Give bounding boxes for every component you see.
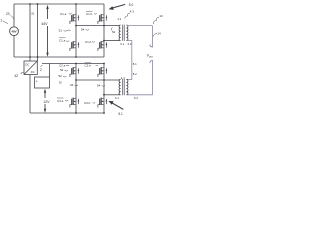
svg-text:8.2: 8.2 (133, 72, 137, 76)
transistor Q7 C3.a (70, 98, 79, 108)
voltage arrow 44V double-headed (47, 9, 49, 19)
callout arrow 5.0 (112, 4, 125, 8)
node dot 37.5,57 (37, 56, 39, 58)
svg-text:DC: DC (31, 70, 35, 74)
wire T2 secondary bottom to output (127, 94, 152, 96)
wire series link T1 sec bottom to T2 sec top (127, 41, 132, 80)
svg-text:52: 52 (112, 30, 116, 34)
converter block U1 DC/DC box (24, 61, 37, 75)
svg-text:8.1: 8.1 (133, 62, 137, 66)
wire T1 secondary top to output (127, 25, 152, 27)
node dot 76,4 (75, 3, 77, 5)
leader after C3.a bar (65, 99, 68, 102)
transistor Q5 C2.a (70, 67, 79, 77)
wire right leg tap to T1 primary bottom (104, 40, 120, 42)
wire lower right leg tap to T2 primary bottom (104, 94, 120, 96)
transistor Q2 C1.b (98, 14, 107, 24)
svg-text:5f: 5f (59, 81, 62, 85)
terminal curl upper (150, 45, 153, 48)
node dot 76,25.6 (75, 25, 77, 27)
svg-text:C1.a: C1.a (59, 39, 66, 43)
transformer T2 (119, 79, 128, 95)
lower bridge right leg (103, 64, 105, 114)
wire left rail lower (13, 36, 15, 58)
transistor Q1 C1.a (70, 14, 79, 24)
wire lower bridge top rail (42, 63, 104, 65)
svg-text:C3.b: C3.b (84, 101, 91, 105)
svg-text:C1.b: C1.b (86, 12, 93, 16)
svg-text:54: 54 (81, 27, 85, 31)
svg-text:C1.b: C1.b (85, 40, 92, 44)
node dot 104,63.5 (103, 63, 105, 65)
svg-text:C2.b: C2.b (85, 64, 92, 68)
leader after C2.b bar (96, 64, 99, 67)
svg-text:51: 51 (59, 28, 63, 32)
top bridge left leg (75, 4, 77, 57)
svg-text:DC: DC (25, 62, 29, 66)
svg-text:44V: 44V (41, 22, 48, 26)
wire bottom input rail (14, 56, 104, 58)
wire vertical x37.5 to DC/DC input (37, 4, 39, 61)
svg-text:13: 13 (159, 14, 163, 18)
node dot 104,25.6 (103, 25, 105, 27)
wire top rail (14, 3, 104, 5)
wire bottom rail (30, 112, 104, 114)
wire output right vertical lower (152, 60, 154, 95)
node dot 76,57 (75, 56, 77, 58)
node dot 104,113 (103, 112, 105, 114)
leader after C3.b (93, 102, 96, 105)
wire output right vertical upper (152, 26, 154, 48)
node dot 76,80 (75, 79, 77, 81)
primary winding (119, 25, 121, 41)
leader after C1.a (69, 13, 72, 16)
leader after C2.a (66, 64, 69, 67)
wire from lower rail to load box right (49, 64, 51, 78)
top bridge right leg (103, 4, 105, 57)
node dot 76,63.5 (75, 63, 77, 65)
wire DC/DC output down (29, 75, 31, 114)
svg-text:52: 52 (59, 74, 63, 78)
lower bridge left leg (75, 64, 77, 114)
svg-text:48V: 48V (11, 30, 16, 34)
svg-text:C3.a: C3.a (57, 99, 64, 103)
svg-text:34: 34 (70, 83, 74, 87)
leader after C1.a bar (66, 40, 69, 43)
core lines (123, 25, 125, 41)
svg-text:14: 14 (157, 32, 161, 36)
svg-text:C2.a: C2.a (59, 64, 66, 68)
node dot 76,113 (75, 112, 77, 114)
transistor Q4 C1.b-bar (98, 41, 107, 51)
svg-text:54: 54 (97, 84, 101, 88)
terminal curl lower (150, 60, 153, 63)
transistor Q3 C1.a-bar (70, 41, 79, 51)
secondary winding (126, 25, 128, 41)
node dot 30,4 (29, 3, 31, 5)
leader after C1.b (94, 13, 97, 16)
callout arrow 5.1 (112, 103, 124, 110)
svg-text:6.1: 6.1 (115, 96, 119, 100)
wire lower bridge midpoint to T2 primary top (76, 79, 120, 81)
svg-text:6.1: 6.1 (120, 42, 124, 46)
node dot 37.5,4 (37, 3, 39, 5)
transistor Q8 C3.b (98, 98, 107, 108)
svg-text:6.2: 6.2 (128, 42, 132, 46)
svg-text:C1.a: C1.a (60, 12, 67, 16)
load box 12V with plus (35, 77, 50, 88)
svg-text:+: + (36, 80, 38, 84)
svg-text:42: 42 (14, 74, 18, 78)
wire left rail upper (13, 4, 15, 27)
battery V1 48V source circle (10, 27, 19, 36)
node dot 30,57 (29, 56, 31, 58)
svg-text:23: 23 (6, 12, 10, 16)
svg-text:5.0: 5.0 (129, 3, 134, 7)
svg-text:12V: 12V (43, 100, 50, 104)
leader after C1.b row2 (92, 41, 95, 44)
svg-text:Vout: Vout (147, 54, 153, 59)
voltage arrow 12V double-headed (44, 93, 46, 99)
wire top bridge midpoint to T1 primary top (76, 25, 120, 27)
svg-text:1: 1 (0, 18, 2, 22)
svg-text:2: 2 (40, 68, 42, 72)
svg-text:52: 52 (60, 68, 64, 72)
svg-text:5.1: 5.1 (118, 112, 123, 116)
svg-text:6.2: 6.2 (134, 96, 138, 100)
transformer T1 (119, 25, 128, 41)
node dot 104,94.6 (103, 94, 105, 96)
diagonal of DC/DC box (24, 61, 37, 75)
node dot 104,80 (103, 79, 105, 81)
svg-text:21: 21 (31, 12, 35, 16)
wire vertical x30 to DC/DC input (29, 4, 31, 61)
svg-text:1:1: 1:1 (117, 17, 121, 21)
transistor Q6 C2.b (98, 67, 107, 77)
svg-text:1:1: 1:1 (121, 76, 125, 80)
svg-text:4.3: 4.3 (130, 9, 135, 13)
node dot 104,40.5 (103, 40, 105, 42)
